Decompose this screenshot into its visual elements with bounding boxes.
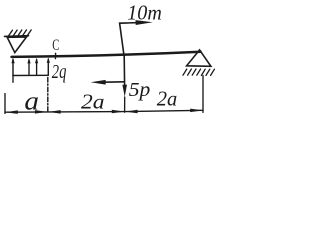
svg-text:2q: 2q: [52, 62, 67, 83]
svg-text:C: C: [52, 37, 59, 54]
distributed load 2q box left edge: [12, 60, 14, 76]
load left edge extension below: [12, 76, 14, 83]
svg-text:5p: 5p: [129, 79, 151, 101]
hatching wall A: [9, 30, 32, 36]
hatching ground B: [183, 69, 214, 75]
svg-text:a: a: [24, 86, 39, 115]
moment 10m bent arrow: [120, 23, 140, 56]
force 5P down arrow: [123, 56, 125, 85]
extension line right: [202, 76, 204, 113]
distributed load bottom line: [13, 74, 48, 76]
dim arrows at C line: [35, 110, 48, 114]
dimension line: [5, 110, 203, 112]
svg-text:10m: 10m: [127, 1, 162, 25]
dim arrow left end: [5, 110, 18, 114]
extension line C (dash-dot): [47, 78, 49, 114]
support A (pin, hanging): [5, 36, 29, 53]
svg-text:2a: 2a: [157, 87, 178, 111]
beam: [12, 52, 201, 57]
extension line left: [4, 94, 6, 114]
load right edge arrow: [47, 59, 49, 75]
horizontal force arrow (left): [104, 81, 124, 83]
force 5P extension to dimension line: [124, 97, 126, 112]
load arrow 1: [28, 60, 30, 75]
load arrow 2: [36, 60, 38, 76]
dim arrows at 5P line: [112, 110, 125, 114]
svg-text:2a: 2a: [81, 90, 105, 114]
support B (roller): [187, 50, 211, 66]
dim arrow right end: [190, 109, 203, 113]
node C tick: [54, 53, 56, 58]
